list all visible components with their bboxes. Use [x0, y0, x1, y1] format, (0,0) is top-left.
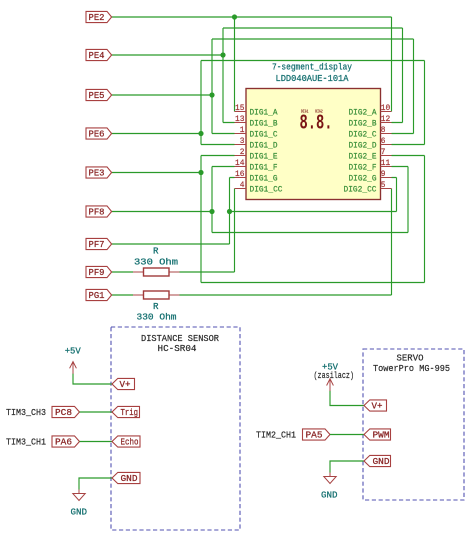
- svg-text:TIM3_CH1: TIM3_CH1: [6, 437, 46, 448]
- svg-text:7: 7: [381, 147, 386, 157]
- pin 16 DIG1_G: [235, 169, 278, 184]
- wire net PG1 to R2 to DIG2_CC: [111, 189, 392, 296]
- global label PA5: [303, 429, 331, 441]
- svg-text:PE5: PE5: [89, 91, 105, 101]
- pin 13 DIG1_B: [235, 114, 278, 129]
- svg-text:PE4: PE4: [89, 51, 105, 61]
- svg-text:TIM3_CH3: TIM3_CH3: [6, 407, 46, 418]
- svg-text:V+: V+: [120, 380, 131, 390]
- junction PE5 at (212,95): [209, 92, 214, 97]
- svg-text:15: 15: [235, 103, 245, 113]
- pin 11 DIG2_F: [349, 158, 392, 173]
- svg-text:R: R: [153, 302, 159, 312]
- global label Echo: [112, 436, 140, 448]
- svg-text:V+: V+: [372, 402, 383, 412]
- svg-text:+5V: +5V: [65, 346, 82, 356]
- global label V+ (sensor): [112, 378, 135, 390]
- svg-text:PC8: PC8: [55, 408, 72, 418]
- box DISTANCE SENSOR HC-SR04: [111, 327, 240, 530]
- global label PG1: [86, 289, 112, 301]
- svg-text:11: 11: [381, 158, 391, 168]
- wire +5V to V+ (sensor): [73, 374, 112, 385]
- box SERVO TowerPro MG-995: [363, 349, 464, 500]
- global label PC8: [52, 406, 80, 418]
- global label PF7: [86, 238, 112, 250]
- svg-text:5: 5: [381, 180, 386, 190]
- pin 5 DIG2_CC: [344, 180, 392, 195]
- svg-text:PA5: PA5: [306, 431, 323, 441]
- svg-text:6: 6: [381, 136, 386, 146]
- svg-text:PF9: PF9: [89, 268, 105, 278]
- svg-text:PE6: PE6: [89, 130, 105, 140]
- global label PE6: [86, 128, 112, 140]
- svg-text:DIG2_B: DIG2_B: [349, 119, 377, 129]
- pin 12 DIG2_B: [349, 114, 392, 129]
- svg-text:PF8: PF8: [89, 208, 105, 218]
- wire PA5 to PWM: [330, 434, 364, 436]
- svg-text:(zasilacz): (zasilacz): [314, 370, 355, 381]
- wire net PF7 to DIG1_G and DIG2_G: [111, 178, 397, 245]
- global label PWM: [364, 429, 391, 441]
- pin 7 DIG2_E: [349, 147, 392, 162]
- wire net PE4 to DIG1_B and DIG2_B: [111, 28, 403, 123]
- global label V+ (servo): [364, 400, 387, 412]
- svg-text:DIG2_F: DIG2_F: [349, 163, 377, 173]
- global label PE3: [86, 167, 112, 179]
- wire PC8 to Trig: [80, 411, 113, 413]
- svg-text:DIG2_C: DIG2_C: [349, 130, 377, 140]
- pin 10 DIG2_A: [349, 103, 392, 118]
- svg-text:DIG1_CC: DIG1_CC: [250, 185, 283, 195]
- global label GND (sensor): [112, 472, 140, 484]
- svg-text:330 Ohm: 330 Ohm: [134, 258, 178, 268]
- svg-text:12: 12: [381, 114, 391, 124]
- svg-text:DIG2_A: DIG2_A: [349, 108, 378, 118]
- junction PE2 at (234.5,17): [232, 14, 237, 19]
- svg-text:13: 13: [235, 114, 245, 124]
- svg-text:3: 3: [240, 136, 245, 146]
- svg-text:PWM: PWM: [373, 431, 390, 441]
- wire net PE3 to DIG1_E and DIG2_E: [111, 156, 425, 283]
- wire net PF9 to R1 to DIG1_CC: [111, 189, 235, 273]
- svg-text:2: 2: [240, 147, 245, 157]
- pin 4 DIG1_CC: [235, 180, 283, 195]
- wire net PE2 to DIG1_A and DIG2_A: [111, 17, 392, 112]
- svg-text:DIG1_E: DIG1_E: [250, 152, 278, 162]
- svg-text:PG1: PG1: [89, 291, 105, 301]
- pin 2 DIG1_E: [235, 147, 278, 162]
- pin 1 DIG1_C: [235, 125, 278, 140]
- pin 8 DIG2_C: [349, 125, 392, 140]
- junction PE6 at (201,133.5): [198, 131, 203, 136]
- svg-text:PA6: PA6: [55, 438, 72, 448]
- svg-text:Trig: Trig: [121, 408, 139, 418]
- svg-text:8.8.: 8.8.: [300, 112, 333, 135]
- global label PE4: [86, 49, 112, 61]
- 7-segment display U1 LDD040AUE-101A body: [246, 89, 381, 200]
- svg-text:GND: GND: [321, 490, 338, 500]
- svg-text:DIG1_G: DIG1_G: [250, 174, 278, 184]
- svg-text:14: 14: [235, 158, 245, 168]
- svg-text:4: 4: [240, 180, 245, 190]
- global label PA6: [52, 436, 80, 448]
- global label Trig: [112, 406, 140, 418]
- svg-text:330 Ohm: 330 Ohm: [137, 313, 177, 323]
- svg-text:8: 8: [381, 125, 386, 135]
- wire GND label to ground (sensor): [79, 478, 112, 490]
- svg-text:GND: GND: [121, 474, 138, 484]
- svg-text:7-segment_display: 7-segment_display: [272, 63, 353, 73]
- svg-text:PE2: PE2: [89, 13, 105, 23]
- svg-text:Echo: Echo: [121, 438, 139, 448]
- wire net PF8 to DIG1_F and DIG2_F: [111, 167, 408, 233]
- junction PE4 at (223,55): [220, 52, 225, 57]
- svg-text:9: 9: [381, 169, 386, 179]
- resistor R2 330 Ohm (PG1 net): [133, 291, 180, 299]
- pin 3 DIG1_D: [235, 136, 278, 151]
- svg-text:DIG1_A: DIG1_A: [250, 108, 279, 118]
- junction PF8 at (212,211.5): [209, 209, 214, 214]
- svg-text:TIM2_CH1: TIM2_CH1: [256, 430, 296, 441]
- svg-text:DIG1_D: DIG1_D: [250, 141, 278, 151]
- global label PE5: [86, 89, 112, 101]
- power symbol +5V (servo): [327, 379, 334, 391]
- svg-text:TowerPro MG-995: TowerPro MG-995: [373, 363, 450, 374]
- power symbol +5V (sensor): [70, 362, 77, 374]
- svg-text:DIG1_F: DIG1_F: [250, 163, 278, 173]
- pin 14 DIG1_F: [235, 158, 278, 173]
- wire GND label to ground (servo): [330, 461, 364, 473]
- svg-text:LDD040AUE-101A: LDD040AUE-101A: [276, 74, 350, 84]
- global label PF8: [86, 206, 112, 218]
- svg-text:GND: GND: [373, 457, 390, 467]
- pin 15 DIG1_A: [235, 103, 279, 118]
- global label PF9: [86, 266, 112, 278]
- svg-text:PF7: PF7: [89, 240, 105, 250]
- svg-text:GND: GND: [71, 507, 88, 517]
- junction PF7 at (229.5,211.5): [227, 209, 232, 214]
- svg-text:DIG2_CC: DIG2_CC: [344, 185, 377, 195]
- wire +5V to V+ (servo): [330, 391, 364, 406]
- svg-text:PE3: PE3: [89, 169, 105, 179]
- svg-text:HC-SR04: HC-SR04: [158, 343, 197, 354]
- svg-text:10: 10: [381, 103, 391, 113]
- svg-text:R: R: [153, 246, 159, 256]
- svg-text:DIG2_G: DIG2_G: [349, 174, 377, 184]
- pin 9 DIG2_G: [349, 169, 392, 184]
- svg-text:DIG1_B: DIG1_B: [250, 119, 278, 129]
- ground symbol (sensor): [73, 490, 85, 501]
- resistor R1 330 Ohm (PF9 net): [133, 268, 180, 276]
- junction PE3 at (201,172.5): [198, 170, 203, 175]
- svg-text:DIG2_D: DIG2_D: [349, 141, 377, 151]
- global label PE2: [86, 11, 112, 23]
- svg-text:16: 16: [235, 169, 245, 179]
- svg-text:DIG2_E: DIG2_E: [349, 152, 377, 162]
- svg-text:1: 1: [240, 125, 245, 135]
- pin 6 DIG2_D: [349, 136, 392, 151]
- svg-text:SERVO: SERVO: [397, 353, 424, 364]
- global label GND (servo): [364, 455, 391, 467]
- wire net PE6 to DIG1_D and DIG2_D: [111, 61, 425, 145]
- wire PA6 to Echo: [80, 441, 113, 443]
- ground symbol (servo): [324, 473, 336, 484]
- svg-text:DIG1_C: DIG1_C: [250, 130, 278, 140]
- wire net PE5 to DIG1_C and DIG2_C: [111, 39, 414, 134]
